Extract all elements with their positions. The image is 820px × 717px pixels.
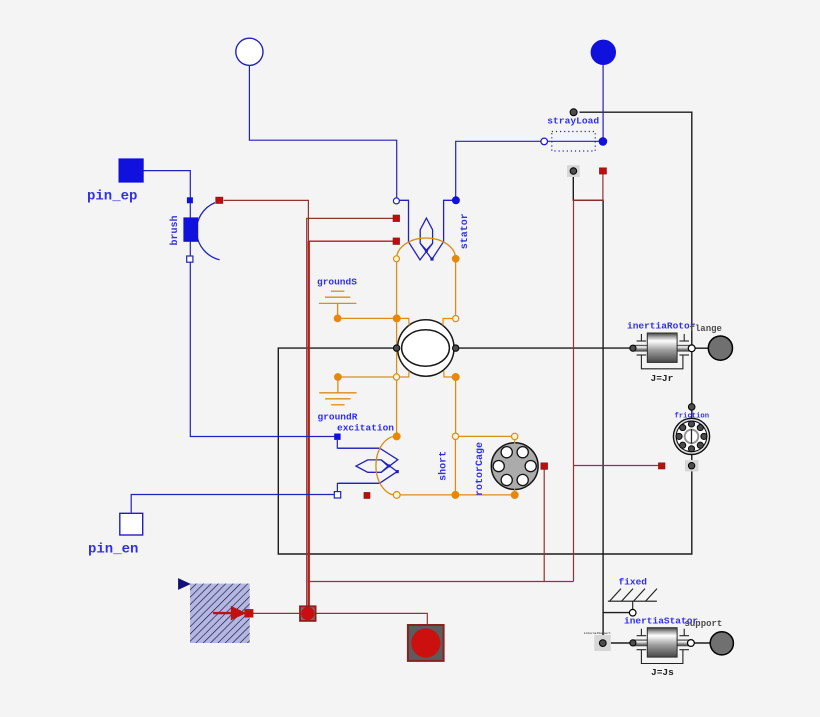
starpoint circle xyxy=(236,38,263,65)
stator heatPortCore square xyxy=(393,238,399,244)
svg-text:fixed: fixed xyxy=(619,576,648,587)
svg-text:flange: flange xyxy=(690,324,722,334)
inertiaRotor left dot xyxy=(630,345,636,351)
wire airGap port_rp to short xyxy=(455,380,457,433)
support connector circle xyxy=(710,632,733,655)
excitation pin_ep square xyxy=(334,434,340,440)
airGap port_sn junction dot xyxy=(393,315,400,322)
wire pin_en to excitation xyxy=(131,495,334,513)
strayLoad support dot xyxy=(570,168,577,175)
inertiaStator J=Js xyxy=(633,628,690,664)
svg-text:inertiaRotor: inertiaRotor xyxy=(627,320,696,331)
stator port_sn open circle xyxy=(394,256,400,262)
wire strayLoad heatPort down xyxy=(574,174,603,582)
inertiaRotor J=Jr xyxy=(633,333,690,369)
airGap port_rp dot xyxy=(452,374,459,381)
airGap outer circle xyxy=(398,320,454,376)
wire strayLoad flange to right rail xyxy=(580,112,692,460)
wire stator heatPortCore xyxy=(309,240,393,242)
svg-text:groundS: groundS xyxy=(317,276,357,287)
wire groundS to airGap xyxy=(338,317,394,319)
temperature source circle xyxy=(411,628,440,657)
wire stator plug to strayLoad xyxy=(456,141,541,197)
stator magnetic arc xyxy=(397,238,456,259)
wire stator heatPortWinding xyxy=(307,218,394,606)
groundR symbol xyxy=(319,377,356,405)
fixed flange open circle xyxy=(629,609,636,616)
inertiaStator support square xyxy=(594,635,611,651)
svg-text:pin_en: pin_en xyxy=(88,542,138,558)
inertiaStator support dot xyxy=(599,640,606,647)
stator winding joint dots xyxy=(430,257,433,260)
groundS symbol xyxy=(319,291,356,318)
wire inertiaStator left shaft xyxy=(611,642,633,644)
wire stator port_sn down to airGap xyxy=(396,262,398,319)
supply circle xyxy=(591,40,615,64)
strayLoad heatPort square xyxy=(600,168,607,174)
wire inertiaStator to support xyxy=(694,642,710,644)
excitation magnetic arc xyxy=(376,436,397,495)
inertiaRotor flange open circle xyxy=(688,345,695,352)
wire starpoint to stator plug xyxy=(249,66,396,198)
thermalAmbient arrow xyxy=(213,607,253,620)
wire strayLoad to supply circle xyxy=(602,65,604,138)
stator port_sp dot xyxy=(452,255,459,262)
friction top dot xyxy=(688,404,695,411)
strayLoad support square xyxy=(567,165,580,177)
excitation heatPort square xyxy=(364,493,370,499)
short component line xyxy=(454,436,456,495)
wire thermal collector to ambient xyxy=(316,613,428,625)
excitation pin_en square xyxy=(334,492,340,498)
wire brush to excitation pin_ep xyxy=(190,203,334,437)
friction bearing xyxy=(673,418,709,454)
svg-text:internalSupport: internalSupport xyxy=(584,631,611,635)
thermalAmbient triangle xyxy=(178,578,191,590)
svg-text:support: support xyxy=(685,619,723,629)
wire support bus U-shape (airGap support to friction support) xyxy=(278,348,692,554)
wire shaft airGap to inertiaRotor xyxy=(454,347,633,349)
wire rotorCage heatPort down xyxy=(543,469,545,581)
stator heatPortWinding square xyxy=(393,215,399,221)
svg-text:friction: friction xyxy=(675,413,710,421)
brush heatPort square xyxy=(216,197,223,203)
wire heat bus vertical xyxy=(308,241,310,606)
thermal collector square xyxy=(300,606,316,621)
svg-text:excitation: excitation xyxy=(337,422,394,433)
airGap support dot left xyxy=(393,345,399,351)
excitation port open circle bottom xyxy=(393,492,400,499)
fixed symbol xyxy=(608,589,657,610)
wire inertiaRotor to flange xyxy=(695,347,708,349)
wire airGap port_rn to excitation xyxy=(396,322,398,434)
pin_en connector xyxy=(120,513,143,535)
rotorCage circle xyxy=(491,443,538,490)
thermal collector circle xyxy=(301,607,314,620)
wire groundR to airGap xyxy=(338,376,394,378)
wire short to rotorCage top xyxy=(459,435,512,437)
wire pin_ep to brush xyxy=(143,171,190,198)
excitation port dot top xyxy=(393,433,400,440)
wire heat bus horizontal xyxy=(309,581,574,583)
svg-text:groundR: groundR xyxy=(318,411,358,422)
strayLoad component xyxy=(541,109,607,151)
svg-text:stator: stator xyxy=(460,213,471,249)
rotorCage heatPort square xyxy=(541,463,548,469)
airGap port_rn open circle xyxy=(393,374,399,380)
inertiaStator right open circle xyxy=(688,640,695,647)
svg-text:strayLoad: strayLoad xyxy=(547,116,599,127)
airGap support dot right xyxy=(453,345,459,351)
wire strayLoad internal xyxy=(548,140,600,142)
stator plug_sn open circle xyxy=(393,198,399,204)
airGap port_sp open circle xyxy=(453,316,459,322)
groundS junction dot xyxy=(334,315,341,322)
short bottom dot xyxy=(452,491,459,498)
rotorCage bottom dot xyxy=(511,492,518,499)
flange connector circle xyxy=(708,336,732,360)
stator plug_sp dot xyxy=(452,197,459,204)
airGap inner ellipse xyxy=(402,330,450,366)
groundR junction dot xyxy=(335,374,342,381)
wire thermal collector left xyxy=(253,612,300,614)
svg-text:short: short xyxy=(437,451,449,481)
airGap port stubs xyxy=(400,318,453,377)
svg-text:J=Jr: J=Jr xyxy=(651,373,674,384)
rotorCage port stubs xyxy=(514,440,516,444)
excitation winding joint dots xyxy=(396,470,399,473)
excitation winding xyxy=(338,448,398,483)
brush U1 xyxy=(184,197,220,262)
rotorCage top open circle xyxy=(512,433,518,439)
friction support square xyxy=(685,460,699,471)
svg-text:rotorCage: rotorCage xyxy=(475,442,486,496)
wire excitation short rotorCage bottom xyxy=(400,494,515,496)
wire strayLoad support down xyxy=(573,177,603,635)
friction support dot xyxy=(688,463,694,469)
short top open circle xyxy=(452,433,458,439)
wire friction heatPort xyxy=(574,465,659,467)
stator winding xyxy=(400,200,453,260)
wire brush heatPort xyxy=(224,200,309,606)
svg-text:brush: brush xyxy=(169,215,181,245)
wire stator port_sp down to airGap xyxy=(455,262,457,315)
thermalAmbient hatched box xyxy=(190,584,250,643)
wire to fixed xyxy=(603,612,630,614)
wire excitation upper pin lead xyxy=(337,440,379,448)
rotorCage holes xyxy=(493,447,536,486)
friction heatPort square xyxy=(659,463,665,469)
temperature source box xyxy=(408,625,444,661)
pin_ep connector xyxy=(119,159,143,182)
wire excitation lower pin lead xyxy=(337,483,379,491)
inertiaStator left dot xyxy=(630,640,636,646)
svg-text:J=Js: J=Js xyxy=(651,667,674,678)
svg-text:pin_ep: pin_ep xyxy=(87,189,137,205)
